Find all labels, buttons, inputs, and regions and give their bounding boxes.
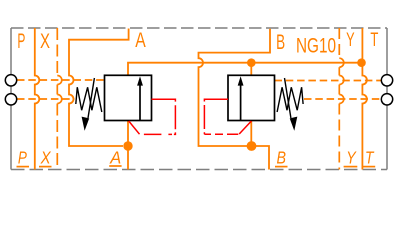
left valve bottom connection to node A bbox=[127, 121, 129, 147]
right valve bottom connection to node B bbox=[250, 121, 252, 147]
left valve pilot diagonal bbox=[129, 121, 140, 134]
junction node dot on T line bbox=[357, 58, 366, 67]
left valve flow arrow bbox=[139, 85, 141, 121]
B label leader line bbox=[199, 29, 271, 170]
left relief valve body bbox=[105, 75, 152, 120]
Y drain line vertical dashed with hops bbox=[338, 28, 340, 170]
port circle P (top-left) bbox=[5, 75, 16, 86]
junction node dot at right valve inlet on gallery bbox=[247, 58, 256, 67]
X pilot line vertical dashed with hops bbox=[56, 28, 58, 170]
drain line from bottom-right circle toward right spring, dashed bbox=[304, 98, 381, 100]
svg-text:X: X bbox=[40, 29, 50, 53]
P supply line vertical with crossover hops bbox=[35, 28, 40, 170]
right relief valve body bbox=[228, 75, 275, 120]
junction node dot at left valve outlet (A) bbox=[123, 141, 132, 150]
right valve pilot line red dashed bbox=[204, 99, 238, 134]
plate outline bottom border bbox=[11, 169, 387, 171]
svg-text:P: P bbox=[18, 147, 27, 167]
pilot line from top-right circle to right valve, dashed bbox=[275, 80, 382, 82]
drain line from bottom-left circle toward left spring, dashed bbox=[17, 98, 75, 100]
right valve top connection bbox=[250, 63, 252, 75]
node A drop line to bottom border bbox=[127, 146, 129, 170]
right valve pilot diagonal bbox=[239, 121, 251, 134]
A label leader line bbox=[69, 29, 129, 147]
svg-text:NG10: NG10 bbox=[296, 33, 336, 57]
svg-text:Y: Y bbox=[346, 147, 356, 167]
Y line hop arcs bbox=[339, 58, 344, 103]
port circle (bottom-right) bbox=[381, 94, 392, 105]
svg-text:X: X bbox=[40, 147, 52, 167]
svg-text:Y: Y bbox=[346, 30, 355, 51]
svg-text:T: T bbox=[365, 147, 374, 167]
svg-text:P: P bbox=[17, 29, 25, 53]
svg-text:T: T bbox=[370, 30, 378, 51]
port circle (top-right) bbox=[381, 75, 392, 86]
left valve spring bbox=[76, 87, 102, 112]
svg-text:A: A bbox=[109, 147, 121, 167]
plate outline right border bbox=[386, 28, 388, 170]
svg-text:B: B bbox=[276, 30, 285, 54]
plate outline top border bbox=[11, 27, 387, 29]
A/B gallery line across valve tops bbox=[128, 63, 362, 75]
X line hop arcs bbox=[57, 76, 62, 104]
port circle T (bottom-left) bbox=[5, 94, 16, 105]
pilot line from plate port (top-left circle) to left valve, dashed bbox=[17, 79, 105, 81]
T tank line vertical with hops bbox=[362, 28, 367, 170]
svg-text:B: B bbox=[276, 147, 286, 167]
right valve adjustment/drain arrow bbox=[285, 78, 291, 118]
svg-text:A: A bbox=[135, 28, 146, 52]
left valve adjustment/drain arrow bbox=[88, 78, 94, 118]
right valve flow arrow bbox=[240, 85, 242, 121]
left valve pilot line red dashed bbox=[144, 99, 176, 134]
plate outline left border bbox=[10, 28, 12, 170]
junction node dot at right valve outlet (B) bbox=[247, 141, 257, 151]
right valve spring bbox=[277, 87, 303, 112]
